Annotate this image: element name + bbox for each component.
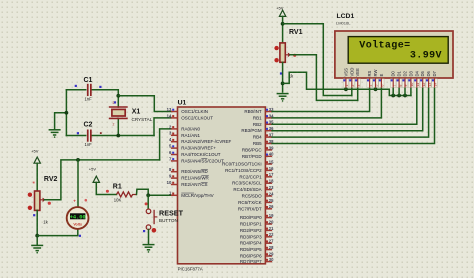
svg-text:RE1/AN6/WR: RE1/AN6/WR — [181, 176, 209, 181]
pin 9 RE1/AN6/|WR| — [169, 174, 210, 181]
svg-text:RC7/RX/DT: RC7/RX/DT — [238, 206, 262, 211]
svg-text:+5V: +5V — [31, 149, 39, 154]
+5V power RV1 — [279, 10, 285, 16]
svg-text:RB1: RB1 — [253, 115, 262, 120]
pin 38 RB5 — [253, 139, 274, 146]
pin 15 RC0/T1OSO/T1CKI — [222, 159, 274, 166]
wire to MCLR pin1 — [148, 194, 171, 196]
svg-text:Voltage=: Voltage= — [359, 40, 410, 52]
svg-text:RB0/INT: RB0/INT — [244, 109, 262, 114]
wire left rail — [65, 90, 67, 136]
svg-text:RD7/PSP7: RD7/PSP7 — [240, 259, 262, 264]
LCD pin 5 (RW) terminal — [373, 78, 379, 88]
pin 10 RE2/AN7/|CS| — [167, 180, 208, 187]
pin 22 RD3/PSP3 — [240, 232, 274, 239]
svg-text:D0: D0 — [391, 70, 396, 76]
svg-text:D3: D3 — [408, 70, 413, 76]
wire node to OSC1 pin13 — [118, 96, 171, 112]
wire +5V to R1 — [96, 182, 116, 194]
svg-text:14: 14 — [167, 113, 172, 118]
junction MCLR node — [146, 193, 150, 197]
wire RV1 wiper to LCD VEE — [290, 55, 358, 101]
pin 2 RA0/AN0 — [169, 124, 201, 131]
pin 7 RA5/AN4/|SS|/C2OUT — [169, 156, 224, 163]
wire D6 to RB4 pin37 — [272, 88, 429, 137]
LCD pin 2 (VDD) terminal — [349, 78, 355, 88]
junction D1 — [397, 94, 401, 98]
svg-text:11: 11 — [416, 83, 420, 87]
svg-text:RA2/AN2/VREF-/CVREF: RA2/AN2/VREF-/CVREF — [181, 139, 231, 144]
svg-text:40: 40 — [269, 152, 274, 157]
svg-text:27: 27 — [269, 239, 274, 244]
svg-text:RC3/SCK/SCL: RC3/SCK/SCL — [232, 181, 262, 186]
svg-text:1nF: 1nF — [85, 142, 93, 147]
pin 13 OSC1/CLKIN — [167, 107, 208, 114]
svg-text:RS: RS — [367, 70, 372, 76]
LCD pin 14 (D7) terminal — [432, 78, 438, 88]
push button RESET — [146, 209, 157, 230]
pin 29 RD6/PSP6 — [240, 251, 274, 258]
svg-text:VDD: VDD — [349, 68, 354, 77]
pin 34 RB1 — [253, 113, 274, 120]
junction D0 — [391, 94, 395, 98]
svg-text:E: E — [379, 74, 384, 77]
pin 33 RB0/INT — [244, 107, 274, 114]
svg-text:29: 29 — [269, 251, 274, 256]
LCD pin 3 (VEE) terminal — [355, 78, 361, 88]
svg-text:8: 8 — [398, 85, 402, 87]
LCD pin 6 (E) terminal — [379, 78, 385, 88]
pin 20 RD1/PSP1 — [240, 219, 274, 226]
svg-text:2: 2 — [113, 123, 115, 127]
svg-text:LCD1: LCD1 — [337, 13, 355, 20]
wire RW stub — [375, 88, 377, 90]
svg-text:26: 26 — [269, 204, 274, 209]
wire node to button top — [147, 195, 149, 208]
svg-text:X1: X1 — [132, 109, 141, 116]
svg-text:RC0/T1OSO/T1CKI: RC0/T1OSO/T1CKI — [222, 162, 262, 167]
svg-text:25: 25 — [269, 198, 274, 203]
svg-text:4: 4 — [369, 85, 373, 87]
svg-text:D6: D6 — [426, 70, 431, 76]
wire ground run to D0-D3 — [376, 89, 411, 95]
ground GND3 — [143, 245, 155, 253]
svg-text:VEE: VEE — [355, 68, 360, 77]
svg-text:RB7/PGD: RB7/PGD — [242, 154, 263, 159]
svg-text:RE0/AN5/RD: RE0/AN5/RD — [181, 169, 208, 174]
pin 39 RB6/PGC — [242, 145, 274, 152]
svg-text:19: 19 — [269, 213, 274, 218]
resistor R1 — [117, 192, 137, 197]
svg-text:BUTTON: BUTTON — [159, 218, 178, 223]
svg-text:9: 9 — [404, 85, 408, 87]
LCD screen — [348, 37, 448, 64]
wire +5V to RV1 — [282, 16, 284, 42]
wire to ground — [55, 113, 67, 130]
junction RV2 bottom — [35, 234, 39, 238]
svg-text:D1: D1 — [397, 70, 402, 76]
svg-text:17: 17 — [269, 172, 274, 177]
svg-text:RW: RW — [373, 70, 378, 77]
svg-text:RD0/PSP0: RD0/PSP0 — [240, 215, 262, 220]
svg-text:3.99V: 3.99V — [410, 50, 442, 61]
marker RV1 red top — [274, 46, 278, 50]
wire R1 to MCLR node — [137, 189, 149, 195]
svg-text:RB2: RB2 — [253, 122, 262, 127]
svg-text:D5: D5 — [420, 70, 425, 76]
pin 17 RC2/CCP1 — [239, 172, 274, 179]
pin 27 RD4/PSP4 — [240, 239, 274, 246]
wire voltmeter + lead — [77, 160, 79, 207]
wire ground run to VSS and RW — [283, 72, 376, 89]
svg-text:RE2/AN7/CS: RE2/AN7/CS — [181, 182, 207, 187]
marker RV1 blue — [280, 72, 282, 74]
junction RV1 bottom — [281, 82, 285, 86]
marker C2 right red — [100, 132, 102, 134]
svg-text:12: 12 — [422, 83, 426, 87]
wire voltmeter - lead — [37, 229, 78, 235]
marker C1 left blue — [75, 85, 77, 87]
svg-text:D2: D2 — [403, 70, 408, 76]
svg-text:U1: U1 — [178, 100, 187, 107]
pin 28 RD5/PSP5 — [240, 245, 274, 252]
svg-text:1: 1 — [345, 85, 349, 87]
svg-text:RA3/AN3/VREF+: RA3/AN3/VREF+ — [181, 146, 216, 151]
wire D2 stub — [404, 88, 406, 96]
svg-text:RD4/PSP4: RD4/PSP4 — [240, 241, 262, 246]
svg-text:6: 6 — [381, 85, 385, 87]
+5V power RV2 — [34, 157, 40, 163]
marker RV2 blue — [33, 214, 35, 216]
capacitor C2 — [87, 130, 92, 142]
wire crystal top pin — [117, 96, 119, 107]
svg-text:OSC2/CLKOUT: OSC2/CLKOUT — [181, 115, 213, 120]
svg-text:RC6/TX/CK: RC6/TX/CK — [238, 200, 262, 205]
junction +5V branch — [281, 22, 285, 26]
wire VEE stub — [357, 88, 359, 101]
svg-text:10K: 10K — [114, 198, 122, 203]
wire VDD stub — [351, 88, 353, 96]
svg-text:+5V: +5V — [89, 167, 97, 172]
wire D0 stub — [392, 88, 394, 96]
pin 1 |MCLR|/Vpp/THV — [169, 191, 214, 198]
ground GND1 — [49, 130, 61, 138]
svg-text:RC4/SDI/SDA: RC4/SDI/SDA — [233, 187, 261, 192]
svg-text:+4.00: +4.00 — [70, 214, 86, 220]
svg-text:RB5: RB5 — [253, 141, 262, 146]
svg-text:C1: C1 — [84, 77, 93, 84]
junction crystal bottom node — [116, 134, 120, 138]
svg-text:22: 22 — [269, 232, 274, 237]
svg-text:RD6/PSP6: RD6/PSP6 — [240, 254, 262, 259]
wire C2 right — [92, 135, 154, 137]
pin 23 RC4/SDI/SDA — [233, 185, 274, 192]
wire D5 to RB3 pin36 — [272, 88, 423, 131]
svg-text:RB3/PGM: RB3/PGM — [241, 128, 262, 133]
wire RV1 bottom — [282, 62, 284, 92]
svg-text:28: 28 — [269, 245, 274, 250]
svg-text:24: 24 — [269, 191, 274, 196]
marker voltmeter blue — [79, 235, 81, 237]
svg-text:20: 20 — [269, 219, 274, 224]
svg-text:C2: C2 — [84, 122, 93, 129]
svg-text:RD2/PSP2: RD2/PSP2 — [240, 228, 262, 233]
wire E to RB1 pin34 — [272, 88, 381, 118]
pin 30 RD7/PSP7 — [240, 257, 274, 264]
ground GND4 — [277, 94, 289, 102]
marker RV2 red bottom — [28, 206, 32, 210]
svg-text:18: 18 — [269, 179, 274, 184]
microcontroller U1 PIC16F877A — [178, 107, 266, 264]
wire RS to RB0 pin33 — [272, 88, 370, 112]
svg-text:RA0/AN0: RA0/AN0 — [181, 126, 200, 131]
wire RV2 wiper to RA0 net — [45, 160, 160, 200]
svg-text:D4: D4 — [414, 70, 419, 76]
svg-text:RA4/T0CKI/C1OUT: RA4/T0CKI/C1OUT — [181, 152, 221, 157]
junction voltmeter top — [76, 158, 80, 162]
svg-text:2: 2 — [113, 101, 115, 105]
LCD pin 13 (D6) terminal — [426, 78, 432, 88]
ground GND2 — [31, 245, 43, 253]
svg-text:RV1: RV1 — [289, 29, 303, 36]
svg-text:RC5/SDO: RC5/SDO — [242, 194, 263, 199]
marker C2 left blue — [77, 132, 79, 134]
potentiometer RV1 — [280, 43, 290, 62]
svg-text:3: 3 — [357, 85, 361, 87]
LCD pin 9 (D2) terminal — [402, 78, 408, 88]
svg-text:1nF: 1nF — [85, 97, 93, 102]
svg-text:RD1/PSP1: RD1/PSP1 — [240, 222, 262, 227]
junction VSS — [344, 87, 348, 91]
svg-text:RV2: RV2 — [44, 176, 58, 183]
svg-text:16: 16 — [269, 166, 274, 171]
marker reset red big — [152, 228, 157, 233]
potentiometer RV2 — [35, 191, 45, 210]
svg-text:RB4: RB4 — [253, 135, 262, 140]
pin 19 RD0/PSP0 — [240, 213, 274, 220]
pin 26 RC7/RX/DT — [238, 204, 274, 211]
svg-text:VSS: VSS — [343, 68, 348, 77]
pin 4 RA2/AN2/VREF-/CVREF — [169, 137, 232, 144]
svg-text:RD3/PSP3: RD3/PSP3 — [240, 234, 262, 239]
marker reset blue — [143, 230, 145, 232]
wire +5V to RV2 top — [36, 163, 38, 191]
LCD pin 4 (RS) terminal — [367, 78, 373, 88]
wire C1 right to crystal top node — [92, 90, 118, 96]
pin 35 RB2 — [253, 120, 274, 127]
wire crystal bottom pin — [117, 118, 119, 135]
wire C1 left — [66, 89, 85, 91]
pin 18 RC3/SCK/SCL — [232, 179, 274, 186]
pin 25 RC6/TX/CK — [238, 198, 274, 205]
pin 3 RA1/AN1 — [169, 131, 201, 138]
marker red near voltmeter — [85, 199, 88, 202]
svg-text:RC1/T1OSI/CCP2: RC1/T1OSI/CCP2 — [225, 168, 262, 173]
marker X1 top blue — [114, 101, 116, 103]
pin 40 RB7/PGD — [242, 152, 274, 159]
crystal X1 — [109, 107, 128, 118]
svg-text:+: + — [73, 199, 76, 204]
voltmeter — [67, 207, 89, 229]
LCD pin 10 (D3) terminal — [408, 78, 414, 88]
pin 24 RC5/SDO — [242, 191, 275, 198]
pin 5 RA3/AN3/VREF+ — [169, 144, 216, 151]
wire up to RA0 pin2 — [160, 129, 171, 160]
marker RV2 red top — [28, 193, 32, 197]
svg-text:MCLR/Vpp/THV: MCLR/Vpp/THV — [181, 193, 213, 198]
wire C2 left — [66, 135, 85, 137]
svg-text:13: 13 — [428, 83, 432, 87]
LCD pin 7 (D0) terminal — [391, 78, 397, 88]
marker RV2 wiper red — [48, 202, 51, 205]
svg-text:R1: R1 — [113, 184, 122, 191]
wire RV2 bottom to ground — [36, 210, 38, 245]
svg-text:5: 5 — [375, 85, 379, 87]
pin 37 RB4 — [253, 133, 274, 140]
junction left rail / ground branch — [65, 111, 69, 115]
marker R1 red — [106, 190, 109, 193]
wire node to OSC2 pin14 — [154, 118, 171, 136]
svg-text:14: 14 — [434, 83, 438, 87]
wire VSS stub — [345, 88, 347, 90]
marker RV1 wiper red — [293, 54, 296, 57]
pin 21 RD2/PSP2 — [240, 226, 274, 233]
svg-text:2: 2 — [351, 85, 355, 87]
svg-text:RB6/PGC: RB6/PGC — [242, 147, 263, 152]
svg-text:RESET: RESET — [159, 208, 184, 217]
svg-text:OSC1/CLKIN: OSC1/CLKIN — [181, 109, 208, 114]
svg-text:10: 10 — [167, 180, 172, 185]
pin 16 RC1/T1OSI/CCP2 — [225, 166, 274, 173]
svg-text:13: 13 — [167, 107, 172, 112]
svg-text:PIC16F877A: PIC16F877A — [178, 266, 203, 271]
LCD LCD1 LM016L — [335, 31, 453, 78]
svg-text:30: 30 — [269, 257, 274, 262]
svg-text:RC2/CCP1: RC2/CCP1 — [239, 174, 262, 179]
marker RV2 faint red — [33, 182, 35, 184]
marker reset red small — [145, 202, 148, 205]
junction RW — [374, 87, 378, 91]
svg-text:Volts: Volts — [73, 223, 82, 227]
LCD pin 12 (D5) terminal — [420, 78, 426, 88]
svg-text:39: 39 — [269, 145, 274, 150]
svg-text:D7: D7 — [432, 70, 437, 76]
junction D2 — [403, 94, 407, 98]
svg-text:10: 10 — [410, 83, 414, 87]
pin 14 OSC2/CLKOUT — [167, 113, 214, 120]
svg-text:RA1/AN1: RA1/AN1 — [181, 133, 200, 138]
wire button to ground — [148, 230, 150, 245]
svg-text:23: 23 — [269, 185, 274, 190]
wire D3 stub — [410, 88, 412, 96]
wire +5V to LCD VDD — [283, 24, 352, 96]
svg-text:RA5/AN4/SS/C2OUT: RA5/AN4/SS/C2OUT — [181, 158, 224, 163]
wire D4 to RB2 pin35 — [272, 88, 417, 125]
svg-text:LM016L: LM016L — [336, 21, 351, 26]
wire D1 stub — [398, 88, 400, 96]
marker RV1 red bottom — [274, 58, 278, 62]
wire D7 to RB5 pin38 — [272, 88, 434, 144]
LCD pin 11 (D4) terminal — [414, 78, 420, 88]
svg-text:CRYSTAL: CRYSTAL — [132, 117, 153, 122]
pin 6 RA4/T0CKI/C1OUT — [169, 150, 221, 157]
LCD pin 1 (VSS) terminal — [343, 78, 349, 88]
+5V power R1 — [93, 176, 99, 182]
capacitor C1 — [87, 84, 92, 96]
LCD pin 8 (D1) terminal — [396, 78, 402, 88]
svg-text:RD5/PSP5: RD5/PSP5 — [240, 247, 262, 252]
pin 36 RB3/PGM — [241, 126, 274, 133]
marker C1 right blue — [99, 86, 101, 88]
svg-text:7: 7 — [392, 85, 396, 87]
junction crystal top node — [116, 94, 120, 98]
pin 8 RE0/AN5/|RD| — [169, 167, 209, 174]
svg-text:15: 15 — [269, 159, 274, 164]
svg-text:21: 21 — [269, 226, 274, 231]
